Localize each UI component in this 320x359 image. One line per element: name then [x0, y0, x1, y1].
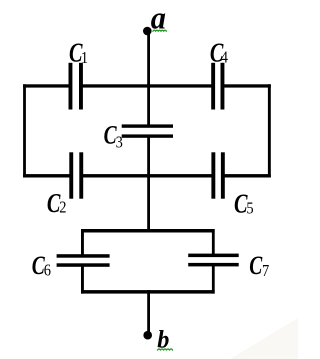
- box bottom rail: [81, 290, 215, 294]
- label C1: [69, 39, 88, 68]
- label C5: [234, 190, 254, 219]
- svg-text:C: C: [249, 251, 263, 279]
- box right wire lower segment: [212, 265, 215, 294]
- label C7: [249, 251, 269, 280]
- page shading bottom-right: [230, 318, 298, 359]
- capacitor C5: [211, 152, 224, 198]
- capacitor C2: [69, 152, 83, 198]
- svg-text:6: 6: [44, 261, 51, 279]
- top rail right segment: [222, 84, 271, 87]
- wire box bottom to node b (center vertical): [147, 290, 150, 335]
- left outer wire: [23, 84, 26, 177]
- node b: [143, 331, 152, 340]
- label C6: [32, 251, 51, 280]
- svg-text:1: 1: [81, 49, 88, 67]
- box right wire upper segment: [212, 229, 215, 256]
- svg-text:2: 2: [59, 198, 66, 216]
- capacitor C1: [69, 63, 83, 110]
- capacitor C7: [188, 254, 239, 267]
- mid rail right segment: [222, 174, 271, 177]
- box top rail: [81, 229, 215, 233]
- capacitor C3: [122, 124, 173, 137]
- box left wire upper segment: [81, 229, 84, 256]
- wire a to C3 top plate (center vertical): [147, 29, 150, 126]
- mid rail middle segment: [80, 174, 214, 177]
- svg-text:3: 3: [116, 134, 123, 152]
- top rail middle segment: [80, 84, 214, 87]
- label b: [157, 326, 172, 353]
- box left wire lower segment: [81, 265, 84, 294]
- top rail left segment: [23, 84, 71, 87]
- label C3: [104, 121, 123, 152]
- label C2: [47, 189, 67, 218]
- label a: [151, 0, 167, 36]
- mid rail left segment: [23, 174, 71, 177]
- right outer wire: [268, 84, 271, 177]
- wire C3 bottom plate to box top (center vertical): [147, 137, 150, 232]
- svg-text:4: 4: [221, 49, 228, 67]
- capacitor C6: [57, 254, 110, 267]
- label C4: [210, 39, 228, 68]
- svg-text:5: 5: [246, 199, 253, 217]
- capacitor C4: [211, 63, 224, 110]
- svg-text:7: 7: [262, 262, 269, 280]
- node a: [143, 27, 152, 36]
